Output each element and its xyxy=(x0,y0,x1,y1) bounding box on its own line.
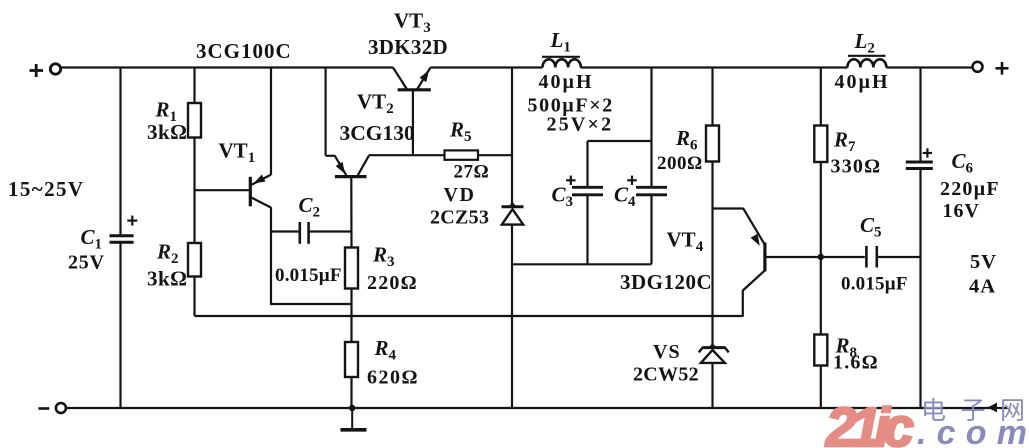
svg-text:40µH: 40µH xyxy=(539,71,594,93)
svg-text:C2: C2 xyxy=(299,193,321,221)
svg-text:R2: R2 xyxy=(156,240,179,268)
svg-text:2CZ53: 2CZ53 xyxy=(430,207,489,229)
svg-text:15~25V: 15~25V xyxy=(8,177,85,201)
svg-text:VT1: VT1 xyxy=(219,139,256,167)
svg-text:R5: R5 xyxy=(449,118,472,146)
svg-text:L2: L2 xyxy=(854,29,875,57)
svg-text:C5: C5 xyxy=(860,213,882,241)
svg-text:21ic: 21ic xyxy=(825,396,914,448)
svg-text:L1: L1 xyxy=(550,28,571,56)
svg-text:220Ω: 220Ω xyxy=(367,272,418,294)
svg-text:220µF: 220µF xyxy=(940,178,1000,200)
svg-text:3DG120C: 3DG120C xyxy=(620,270,712,294)
svg-text:200Ω: 200Ω xyxy=(657,153,703,174)
svg-text:40µH: 40µH xyxy=(835,71,890,93)
svg-text:25V: 25V xyxy=(68,251,105,273)
svg-text:C3: C3 xyxy=(552,183,574,211)
svg-text:330Ω: 330Ω xyxy=(831,156,882,178)
svg-text:R3: R3 xyxy=(372,243,395,271)
svg-text:3kΩ: 3kΩ xyxy=(147,267,188,291)
svg-text:1.6Ω: 1.6Ω xyxy=(833,352,879,374)
svg-text:25V×2: 25V×2 xyxy=(547,114,614,136)
svg-text:R4: R4 xyxy=(374,336,397,364)
svg-text:VD: VD xyxy=(444,184,476,206)
svg-text:VT3: VT3 xyxy=(394,9,431,37)
svg-text:27Ω: 27Ω xyxy=(454,162,490,183)
svg-text:3kΩ: 3kΩ xyxy=(147,120,188,144)
svg-text:620Ω: 620Ω xyxy=(367,367,419,389)
svg-text:VT4: VT4 xyxy=(667,228,704,256)
svg-text:5V: 5V xyxy=(970,251,997,273)
svg-text:R7: R7 xyxy=(833,128,856,156)
svg-text:3CG100C: 3CG100C xyxy=(196,39,292,63)
svg-text:VT2: VT2 xyxy=(357,90,394,118)
svg-text:C6: C6 xyxy=(952,149,974,177)
svg-text:2CW52: 2CW52 xyxy=(633,364,699,386)
svg-text:0.015µF: 0.015µF xyxy=(275,265,342,286)
svg-text:16V: 16V xyxy=(943,200,980,222)
svg-text:3DK32D: 3DK32D xyxy=(368,35,448,59)
svg-text:VS: VS xyxy=(653,341,681,363)
svg-text:4A: 4A xyxy=(969,276,996,298)
svg-text:0.015µF: 0.015µF xyxy=(841,274,908,295)
svg-text:C1: C1 xyxy=(81,225,103,253)
svg-text:C4: C4 xyxy=(614,183,636,211)
svg-text:R6: R6 xyxy=(675,126,698,154)
svg-text:3CG130: 3CG130 xyxy=(340,121,415,145)
